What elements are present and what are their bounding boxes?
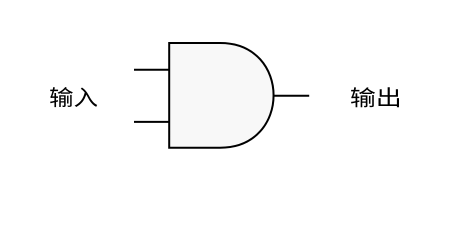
wire: input A (top) (134, 69, 169, 71)
wire: output (273, 95, 309, 97)
label: 输入 (input) (50, 87, 97, 107)
AND gate U1 body (169, 43, 273, 148)
label: 输出 (output) (351, 87, 399, 107)
wire: input B (bottom) (134, 121, 169, 123)
